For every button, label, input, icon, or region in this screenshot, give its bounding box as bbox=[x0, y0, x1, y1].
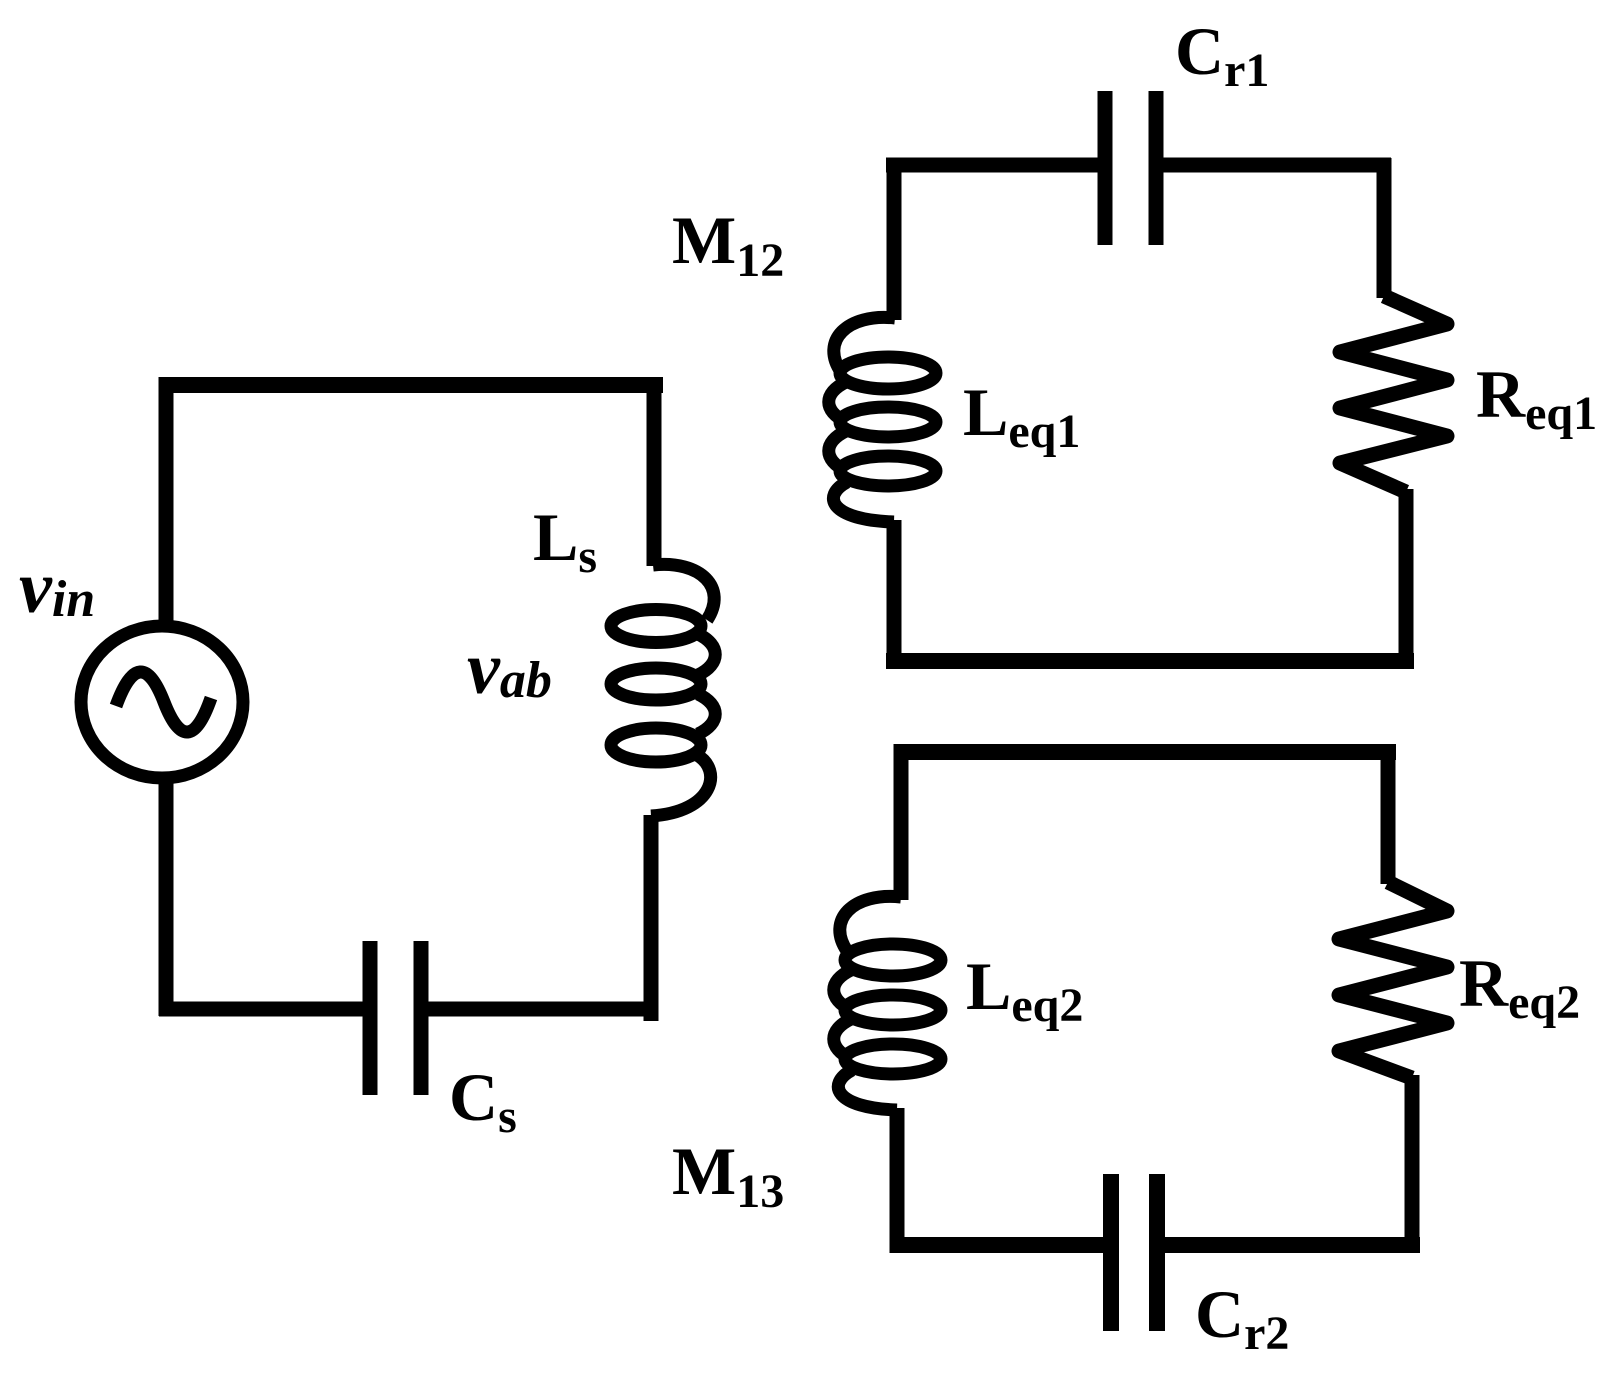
label Req1 bbox=[1476, 356, 1597, 440]
svg-text:Cr2: Cr2 bbox=[1195, 1276, 1289, 1360]
wire left upper (top wire to source) bbox=[159, 377, 174, 632]
wire left lower of loop 2 bbox=[887, 520, 902, 669]
label Cs bbox=[449, 1059, 517, 1143]
wire left upper of loop 3 bbox=[894, 744, 909, 900]
capacitor Cr2 bbox=[1111, 1174, 1157, 1331]
resistor Req2 bbox=[1339, 882, 1447, 1078]
inductor Leq1 bbox=[829, 317, 936, 522]
svg-text:M12: M12 bbox=[672, 202, 784, 287]
capacitor Cr1 bbox=[1105, 91, 1156, 245]
inductor Leq2 bbox=[834, 896, 941, 1110]
wire top of loop 3 bbox=[894, 744, 1396, 760]
wire left lower of loop 3 bbox=[890, 1108, 905, 1253]
svg-text:Ls: Ls bbox=[533, 499, 597, 583]
svg-text:vin: vin bbox=[19, 547, 95, 629]
capacitor Cs bbox=[370, 941, 421, 1095]
svg-text:Cr1: Cr1 bbox=[1175, 13, 1269, 97]
svg-text:vab: vab bbox=[467, 628, 552, 710]
wire right lower of loop 3 bbox=[1405, 1075, 1420, 1253]
wire top of loop 1 bbox=[159, 377, 663, 393]
resistor Req1 bbox=[1340, 296, 1447, 492]
wire bottom-left of loop 1 bbox=[159, 1002, 371, 1017]
label Leq1 bbox=[963, 374, 1080, 458]
label Leq2 bbox=[966, 948, 1083, 1032]
wire right upper of loop 3 bbox=[1381, 744, 1396, 884]
wire right lower of loop 2 bbox=[1399, 489, 1414, 669]
svg-text:M13: M13 bbox=[672, 1133, 784, 1218]
label vin bbox=[19, 547, 95, 629]
svg-text:Cs: Cs bbox=[449, 1059, 517, 1143]
label Cr1 bbox=[1175, 13, 1269, 97]
wire right upper of loop 2 bbox=[1377, 158, 1392, 298]
wire bottom of loop 2 bbox=[886, 653, 1414, 669]
label Req2 bbox=[1459, 945, 1580, 1029]
svg-text:Leq1: Leq1 bbox=[963, 374, 1080, 458]
wire bottom-right of loop 1 bbox=[428, 1002, 658, 1017]
wire bottom-right of loop 3 bbox=[1165, 1237, 1420, 1253]
wire right lower (bottom wire to Ls) bbox=[644, 815, 659, 1021]
label vab bbox=[467, 628, 552, 710]
svg-text:Req2: Req2 bbox=[1459, 945, 1580, 1029]
label M13 bbox=[672, 1133, 784, 1218]
wire bottom-left of loop 3 bbox=[894, 1237, 1104, 1253]
wire right upper (Ls to top wire) bbox=[647, 377, 662, 566]
wire top-left of loop 2 bbox=[886, 158, 1100, 173]
label Cr2 bbox=[1195, 1276, 1289, 1360]
svg-text:Leq2: Leq2 bbox=[966, 948, 1083, 1032]
wire left upper of loop 2 bbox=[887, 158, 902, 320]
AC source vin bbox=[81, 626, 243, 778]
label Ls bbox=[533, 499, 597, 583]
wire top-right of loop 2 bbox=[1163, 158, 1391, 173]
inductor Ls bbox=[611, 564, 715, 816]
label M12 bbox=[672, 202, 784, 287]
svg-text:Req1: Req1 bbox=[1476, 356, 1597, 440]
wire left lower (source to bottom wire) bbox=[159, 776, 174, 1016]
